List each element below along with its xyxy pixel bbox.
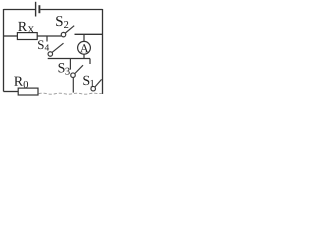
label R0 bbox=[14, 77, 28, 88]
label S1 bbox=[83, 76, 94, 87]
switch S1 blade bbox=[95, 79, 102, 87]
wire S2 fixed contact to right rail bbox=[75, 33, 103, 35]
wire mid rail bbox=[48, 58, 90, 60]
switch S3 top stub bbox=[69, 59, 71, 70]
switch S4 blade bbox=[52, 43, 63, 52]
wire bottom dashed bbox=[39, 93, 103, 94]
wire ammeter top stub bbox=[83, 34, 85, 41]
wire top-right bbox=[40, 9, 102, 11]
ammeter A1 circle bbox=[78, 41, 91, 54]
label S2 bbox=[56, 16, 68, 28]
wire Rx right bbox=[37, 35, 61, 37]
label S4 bbox=[38, 40, 49, 50]
wire right rail bbox=[102, 9, 104, 94]
wire S1 fixed stub bbox=[89, 59, 91, 65]
battery E long plate bbox=[35, 2, 37, 17]
battery E short plate bbox=[38, 5, 40, 13]
wire Rx left bbox=[4, 35, 18, 37]
label Rx bbox=[18, 22, 34, 33]
switch S4 pivot circle bbox=[48, 52, 53, 57]
wire bottom-left bbox=[4, 91, 19, 93]
node J1 stub down to S4 bbox=[46, 36, 48, 42]
wire top-left bbox=[4, 9, 36, 11]
switch S1 pivot circle bbox=[91, 86, 96, 91]
switch S3 pivot circle bbox=[71, 73, 76, 78]
switch S2 pivot circle bbox=[61, 32, 66, 37]
switch S3 blade bbox=[75, 65, 83, 73]
wire ammeter bottom stub bbox=[83, 54, 85, 58]
resistor Rx box bbox=[17, 33, 37, 40]
switch S2 blade bbox=[65, 26, 74, 33]
wire left rail bbox=[3, 9, 5, 92]
resistor R0 box bbox=[18, 88, 38, 95]
label S3 bbox=[59, 63, 70, 75]
switch S3 bottom stub bbox=[72, 77, 74, 92]
label A of ammeter bbox=[80, 44, 88, 52]
